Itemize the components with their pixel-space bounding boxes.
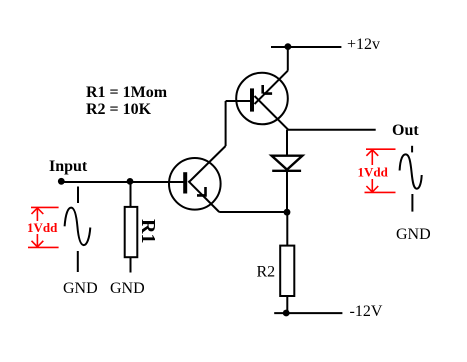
- annotation 1Vdd input swing arrow line upper: [36, 208, 38, 221]
- svg-text:1Vdd: 1Vdd: [358, 165, 389, 180]
- resistor R1 bottom lead wire: [130, 257, 132, 272]
- annotation 1Vdd output swing bottom bar: [365, 191, 396, 193]
- svg-text:GND: GND: [396, 226, 431, 243]
- wire Q1 collector to Q2 base horizontal: [226, 100, 250, 102]
- AC source output reference top lead: [411, 146, 413, 153]
- annotation 1Vdd output swing up arrowhead: [366, 150, 378, 156]
- svg-text:1Vdd: 1Vdd: [27, 220, 58, 235]
- resistor R1 top lead wire: [130, 182, 132, 207]
- annotation 1Vdd input swing top bar: [31, 206, 59, 208]
- svg-text:Out: Out: [392, 122, 419, 139]
- svg-text:+12v: +12v: [347, 36, 380, 53]
- svg-text:Input: Input: [49, 158, 88, 175]
- transistor Q2 circle: [236, 73, 288, 125]
- transistor Q1 emitter arrowhead: [197, 187, 207, 197]
- wire Q1 emitter to diode junction: [219, 211, 287, 213]
- wire input net: [59, 181, 184, 183]
- resistor R2 top lead wire: [286, 212, 288, 246]
- annotation 1Vdd output swing arrow line lower: [371, 179, 373, 192]
- diode D1 cathode lead wire: [286, 171, 288, 212]
- node -12V rail junction dot: [283, 310, 290, 317]
- svg-text:R2: R2: [257, 264, 276, 281]
- wire Q2 emitter to +12v rail: [287, 47, 289, 71]
- AC source Vin bottom lead: [77, 251, 79, 272]
- power rail -12V: [274, 312, 342, 314]
- transistor Q2 emitter arrowhead: [263, 85, 272, 94]
- power rail +12v: [271, 46, 341, 48]
- svg-text:R1: R1: [137, 219, 159, 243]
- svg-text:R2 = 10K: R2 = 10K: [86, 101, 152, 118]
- svg-text:R1 = 1Mom: R1 = 1Mom: [86, 84, 168, 101]
- annotation 1Vdd input swing arrow line lower: [36, 234, 38, 247]
- svg-text:GND: GND: [63, 280, 98, 297]
- transistor Q1 circle: [169, 158, 221, 210]
- node input terminal junction dot: [58, 178, 65, 185]
- node +12v rail junction dot: [285, 43, 292, 50]
- wire Q1 collector to Q2 base vertical: [225, 101, 227, 146]
- transistor Q1 base bar: [183, 172, 187, 193]
- diode D1 anode lead wire: [286, 130, 288, 156]
- transistor Q2 emitter lead: [255, 71, 288, 104]
- annotation 1Vdd output swing arrow line upper: [371, 150, 373, 165]
- transistor Q1 emitter lead: [188, 181, 219, 212]
- transistor Q2 collector lead: [255, 96, 289, 130]
- svg-text:-12V: -12V: [350, 303, 383, 320]
- node emitter diode junction dot: [284, 209, 291, 216]
- annotation 1Vdd input swing up arrowhead: [32, 208, 44, 214]
- AC source Vin top lead: [77, 187, 79, 204]
- svg-text:GND: GND: [110, 280, 145, 297]
- diode D1 cathode bar: [272, 170, 301, 172]
- resistor R2 body: [280, 246, 294, 296]
- AC source output reference sine wave: [400, 154, 422, 188]
- AC source output reference bottom lead: [411, 194, 413, 212]
- annotation 1Vdd output swing top bar: [366, 148, 396, 150]
- AC source Vin sine wave: [65, 208, 91, 246]
- transistor Q2 base bar: [250, 88, 254, 111]
- resistor R2 bottom lead wire: [286, 296, 288, 313]
- transistor Q1 collector lead: [189, 146, 226, 182]
- annotation 1Vdd input swing down arrowhead: [32, 241, 44, 247]
- annotation 1Vdd output swing down arrowhead: [366, 186, 378, 192]
- diode D1 triangle: [272, 156, 303, 170]
- annotation 1Vdd input swing bottom bar: [28, 246, 59, 248]
- node R1 top junction dot: [127, 178, 134, 185]
- resistor R1 body: [125, 207, 138, 257]
- wire output net: [287, 129, 376, 131]
